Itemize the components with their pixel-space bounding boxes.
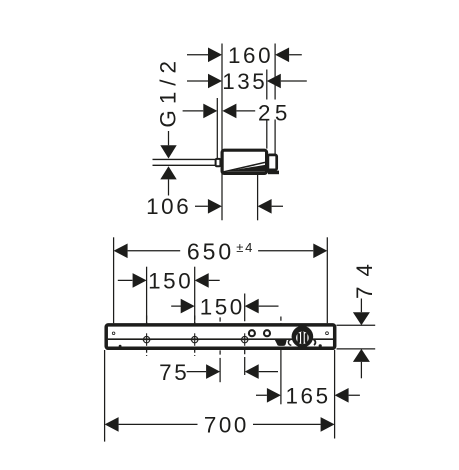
centerline hole 3 solid below (244, 357, 246, 375)
dim 74 upper line (360, 299, 362, 313)
165/700 extension line right x=334.6 (334, 350, 336, 439)
svg-text:650: 650 (187, 239, 234, 265)
select knob (292, 326, 314, 348)
knob face (296, 332, 309, 345)
650 extension line right x=327.3 (326, 237, 328, 323)
centerline hole 2 (dashed) (194, 316, 196, 357)
dim 700 arrows (105, 417, 335, 432)
dim 25 arrows (203, 104, 236, 119)
mount cross 1 (142, 333, 151, 346)
dim 650 arrows (114, 244, 328, 259)
extension line L4 x=275.1 (274, 44, 276, 155)
front knob (268, 155, 277, 170)
svg-text:25: 25 (258, 101, 292, 126)
dim 160 line (187, 54, 302, 56)
button ring 2 (264, 330, 270, 336)
dim 75 arrows (206, 364, 259, 379)
dim 75 line (187, 371, 278, 373)
bottom step (268, 171, 279, 175)
dim 74 lower line (360, 362, 362, 378)
knob grip right (305, 333, 308, 343)
svg-text:75: 75 (159, 360, 189, 385)
svg-text:G1/2: G1/2 (156, 55, 181, 128)
dim 160 arrows (208, 48, 289, 63)
dim 74 extension top (337, 324, 376, 326)
centerline hole 3 (dashed) (244, 317, 246, 356)
extension line L3 x=266.8 (266, 70, 268, 149)
dim 150b line (171, 305, 278, 307)
knob side peg right (314, 340, 316, 345)
extension line L2 wall face x=222 (221, 44, 223, 221)
dim 25 line (183, 110, 256, 112)
svg-text:74: 74 (352, 254, 377, 299)
lever diagonal (224, 162, 265, 171)
lever wedge (224, 165, 266, 172)
supply pipe (double line) (153, 159, 216, 165)
svg-text:150: 150 (200, 294, 245, 319)
650 extension line left x=113.6 (113, 237, 115, 323)
mount cross 3 (240, 333, 249, 346)
dim 700 line (119, 423, 321, 425)
knob grip left (297, 333, 300, 343)
extension line below valve x=257.6 (257, 175, 259, 220)
svg-text:106: 106 (146, 194, 191, 219)
dim G1/2 arrows (160, 145, 176, 179)
screw hole left (112, 332, 115, 335)
dim 74 arrows (353, 312, 370, 362)
bar body (106, 325, 335, 348)
screw hole right (326, 332, 329, 335)
dim 135 line (187, 80, 307, 82)
dim 165 line (256, 394, 360, 396)
dim 650 line (128, 250, 314, 252)
dim 135 arrows (208, 74, 281, 89)
dim 165 arrows (267, 388, 349, 403)
mount cross 2 (190, 333, 199, 346)
wall stub (216, 159, 221, 166)
dim 150a arrows (133, 273, 209, 288)
spout (bottom view) (275, 339, 287, 346)
dim 150a line (118, 279, 220, 281)
centerline spout dash above bar (280, 317, 282, 340)
dim 74 extension bottom (337, 348, 376, 350)
foot dot left (119, 345, 122, 348)
700 extension line left x=104.6 (104, 350, 106, 442)
valve body (top view) (222, 150, 267, 173)
button ring 1 (249, 330, 255, 336)
centerline spout solid below (280, 350, 282, 404)
svg-text:150: 150 (148, 269, 193, 294)
150 extension line x=194.7 (194, 267, 196, 324)
150a extension line x=146.6 (146, 267, 148, 324)
centerline bar middle solid below (219, 358, 221, 382)
dim G1/2 vertical line lower (168, 179, 170, 195)
knob grip middle (301, 332, 304, 345)
svg-text:135: 135 (222, 69, 267, 94)
svg-text:160: 160 (228, 43, 273, 68)
svg-text:700: 700 (204, 413, 249, 438)
foot dot right (319, 344, 322, 347)
knob side peg left (288, 339, 291, 345)
dim 106 arrows (208, 199, 272, 214)
bar mid line (108, 338, 333, 340)
dim 150b arrows (181, 299, 259, 314)
extension line L1 x=217.3 (216, 98, 218, 158)
dim G1/2 vertical line upper (168, 131, 170, 145)
centerline hole 1 (dashed) (146, 316, 148, 357)
svg-text:±4: ±4 (236, 240, 254, 255)
dim 106 line (195, 205, 283, 207)
150b extension line x=244.7 upper (244, 294, 246, 318)
centerline bar middle (dashed) (219, 317, 221, 356)
svg-text:165: 165 (286, 384, 331, 409)
